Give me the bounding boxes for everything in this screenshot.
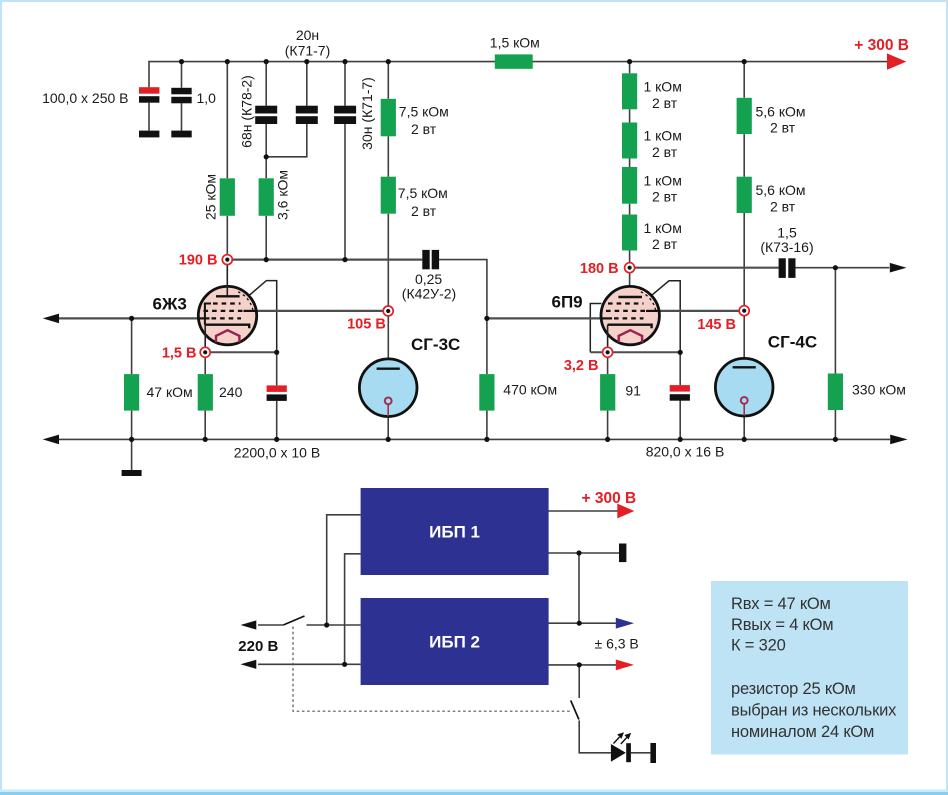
svg-text:2 вт: 2 вт bbox=[652, 189, 678, 205]
svg-text:25 кОм: 25 кОм bbox=[202, 174, 218, 220]
switch S1 lever bbox=[283, 616, 304, 625]
resistor 47 kOm bbox=[124, 374, 139, 411]
svg-text:ИБП 2: ИБП 2 bbox=[429, 632, 480, 651]
svg-text:1 кОм: 1 кОм bbox=[644, 128, 682, 144]
resistor 7.5 kOm 2W upper bbox=[381, 99, 396, 137]
wire S2 to LED bbox=[579, 720, 650, 752]
bus 6Zh3 screen to 105V node bbox=[257, 310, 384, 312]
wire IBP1 common output bbox=[549, 552, 620, 554]
arrow heater red bbox=[616, 660, 634, 671]
node 3.2V bbox=[603, 347, 613, 357]
chassis bar IBP1 bbox=[619, 544, 626, 563]
bus 6P9 cathode link bbox=[590, 351, 680, 353]
wire 820uF bypass column bbox=[679, 352, 681, 439]
svg-text:номиналом 24 кОм: номиналом 24 кОм bbox=[731, 723, 874, 741]
arrow output right bbox=[890, 263, 907, 273]
svg-text:Rвх = 47 кОм: Rвх = 47 кОм bbox=[731, 595, 831, 613]
wire 47k column and ground stub bbox=[131, 318, 133, 470]
wire capacitor C2 leads bbox=[181, 62, 183, 131]
svg-text:91: 91 bbox=[625, 383, 641, 399]
resistor 1 kOm 2W no.4 bbox=[622, 215, 637, 251]
svg-text:± 6,3 В: ± 6,3 В bbox=[595, 636, 639, 652]
resistor 5.6 kOm 2W upper bbox=[737, 98, 752, 134]
dots bottom section bbox=[324, 550, 582, 667]
svg-text:240: 240 bbox=[219, 384, 243, 400]
capacitor 20n K71-7 bbox=[296, 106, 318, 114]
capacitor 2200uF cathode bypass bbox=[267, 385, 287, 392]
wire 20n column with elbow bbox=[266, 62, 307, 157]
wire IBP2 heater outputs bbox=[549, 623, 617, 665]
capacitor 68n K78-2 bbox=[255, 106, 277, 114]
wire +300V top rail bbox=[149, 62, 888, 88]
node 190V bbox=[222, 255, 232, 265]
svg-text:+ 300 В: + 300 В bbox=[582, 490, 637, 507]
dashed gang link bbox=[293, 627, 572, 712]
wire 1k chain column bbox=[629, 62, 631, 297]
wire SG-3S leads bbox=[387, 359, 389, 440]
wire 240 cathode resistor column bbox=[204, 357, 206, 439]
block IBP2 bbox=[361, 598, 549, 685]
svg-text:100,0 x 250 В: 100,0 x 250 В bbox=[42, 90, 128, 106]
arrow +300V bottom red bbox=[617, 504, 634, 519]
svg-text:1 кОм: 1 кОм bbox=[644, 220, 682, 236]
svg-text:(К73-16): (К73-16) bbox=[760, 239, 813, 255]
resistor 1 kOm 2W no.3 bbox=[622, 167, 637, 204]
info box bbox=[711, 581, 908, 755]
arrow 220V lower bbox=[241, 660, 257, 669]
wire common to heater line bbox=[578, 553, 580, 623]
bus 180V plate line bbox=[635, 267, 779, 269]
svg-text:2 вт: 2 вт bbox=[770, 199, 796, 215]
svg-text:1,5 В: 1,5 В bbox=[162, 346, 197, 362]
svg-text:180 В: 180 В bbox=[580, 261, 619, 277]
svg-text:2 вт: 2 вт bbox=[652, 236, 678, 252]
resistor 1.5 kOm anode feed bbox=[495, 54, 533, 68]
arrow 220V upper bbox=[241, 620, 257, 629]
resistor 5.6 kOm 2W lower bbox=[737, 177, 752, 213]
resistor 91 bbox=[600, 374, 615, 411]
ground symbol bbox=[122, 470, 142, 476]
wire 68n column bbox=[265, 62, 267, 260]
svg-text:3,6 кОм: 3,6 кОм bbox=[275, 170, 291, 220]
svg-text:(К71-7): (К71-7) bbox=[285, 42, 331, 58]
wire coupling cap to grid corner bbox=[439, 260, 487, 440]
wire IBP1 +300V output bbox=[549, 510, 618, 512]
wire SG-4S leads bbox=[743, 358, 745, 439]
capacitor 820uF cathode bypass bbox=[670, 385, 690, 392]
resistor 1 kOm 2W no.1 bbox=[622, 73, 637, 109]
svg-text:1 кОм: 1 кОм bbox=[644, 79, 682, 95]
svg-text:68н (К78-2): 68н (К78-2) bbox=[239, 75, 255, 148]
LED light arrows bbox=[614, 737, 620, 744]
capacitor 1.0 bbox=[171, 88, 191, 95]
capacitor 0.25 K42U-2 coupling bbox=[422, 250, 429, 269]
svg-text:1 кОм: 1 кОм bbox=[644, 172, 682, 188]
svg-text:2 вт: 2 вт bbox=[411, 203, 437, 219]
svg-text:220 В: 220 В bbox=[238, 638, 278, 655]
svg-text:выбран из нескольких: выбран из нескольких bbox=[731, 702, 897, 720]
bus 6Zh3 cathode link bbox=[210, 351, 277, 353]
wire ground rail bbox=[57, 438, 890, 440]
capacitor 100uF electrolytic bbox=[139, 87, 159, 94]
capacitor 30n K71-7 bbox=[334, 106, 356, 114]
svg-text:2 вт: 2 вт bbox=[411, 121, 437, 137]
node 105V bbox=[383, 306, 393, 316]
tube SG-4S bbox=[715, 358, 773, 416]
frame border bbox=[0, 0, 948, 2]
switch S2 lever bbox=[571, 700, 579, 719]
wire 5.6k divider column bbox=[743, 62, 745, 359]
svg-text:+ 300 В: + 300 В bbox=[854, 37, 909, 54]
wire to switch S2 bbox=[578, 665, 580, 698]
svg-text:7,5 кОм: 7,5 кОм bbox=[398, 185, 448, 201]
svg-text:6Ж3: 6Ж3 bbox=[153, 294, 187, 313]
svg-text:1,5 кОм: 1,5 кОм bbox=[490, 34, 540, 50]
svg-text:3,2 В: 3,2 В bbox=[564, 358, 599, 374]
wire 220V upper line bbox=[258, 624, 361, 626]
resistor 25 kOm bbox=[220, 178, 235, 216]
resistor 3.6 kOm bbox=[259, 178, 274, 216]
wire 91 cathode resistor column bbox=[607, 357, 609, 439]
LED terminal bar bbox=[650, 743, 656, 763]
capacitor 1.5 K73-16 output bbox=[779, 258, 786, 278]
svg-text:1,0: 1,0 bbox=[197, 90, 217, 106]
wire 2200uF bypass column bbox=[276, 352, 278, 439]
svg-text:2200,0 x 10 В: 2200,0 x 10 В bbox=[234, 445, 320, 461]
svg-text:20н: 20н bbox=[296, 27, 319, 43]
arrow ground right bbox=[890, 435, 907, 445]
svg-text:5,6 кОм: 5,6 кОм bbox=[756, 103, 806, 119]
svg-text:190 В: 190 В bbox=[179, 253, 218, 269]
svg-text:145 В: 145 В bbox=[697, 317, 736, 333]
svg-text:5,6 кОм: 5,6 кОм bbox=[756, 182, 806, 198]
node 1.5V bbox=[200, 347, 210, 357]
arrow +300V red bbox=[887, 53, 906, 69]
node 145V bbox=[739, 306, 749, 316]
svg-text:К = 320: К = 320 bbox=[731, 637, 786, 655]
wire IBP1 left feeds bbox=[327, 515, 361, 665]
node 180V bbox=[625, 263, 635, 273]
svg-text:6П9: 6П9 bbox=[552, 293, 583, 312]
arrow input left bbox=[43, 314, 59, 324]
wire 6Zh3 shield connection bbox=[249, 281, 276, 353]
svg-text:2 вт: 2 вт bbox=[770, 120, 796, 136]
wire 6P9 shield connection bbox=[652, 281, 680, 353]
svg-text:ИБП 1: ИБП 1 bbox=[429, 522, 480, 541]
tube 6Zh3 bbox=[198, 265, 256, 348]
svg-text:2 вт: 2 вт bbox=[652, 144, 678, 160]
wire 6P9 suppressor to cathode bbox=[590, 304, 601, 353]
bus input line to 6Zh3 grid bbox=[57, 317, 199, 319]
svg-text:СГ-3С: СГ-3С bbox=[411, 335, 460, 354]
resistor 7.5 kOm 2W lower bbox=[381, 177, 396, 214]
resistor 470 kOm bbox=[479, 374, 494, 411]
svg-text:105 В: 105 В bbox=[347, 316, 386, 332]
bus 6P9 grid line bbox=[487, 317, 601, 319]
svg-text:330 кОм: 330 кОм bbox=[852, 382, 906, 398]
wire capacitor C1 lower lead bbox=[148, 103, 150, 131]
svg-text:47 кОм: 47 кОм bbox=[147, 384, 193, 400]
svg-text:820,0 x 16 В: 820,0 x 16 В bbox=[646, 443, 725, 459]
resistor 1 kOm 2W no.2 bbox=[622, 123, 637, 159]
bus 190V plate line bbox=[232, 259, 422, 261]
block IBP1 bbox=[361, 488, 549, 575]
LED HL1 bbox=[611, 744, 626, 762]
arrow heater blue bbox=[616, 618, 634, 629]
wire output after 1.5uF cap bbox=[796, 268, 890, 440]
arrow ground left bbox=[43, 435, 59, 445]
svg-text:Rвых = 4 кОм: Rвых = 4 кОм bbox=[731, 616, 833, 634]
svg-text:7,5 кОм: 7,5 кОм bbox=[399, 103, 449, 119]
svg-text:470 кОм: 470 кОм bbox=[503, 382, 557, 398]
resistor 330 kOm bbox=[828, 374, 843, 411]
bus 6P9 screen to 145V node bbox=[659, 310, 739, 312]
tube 6P9 bbox=[601, 286, 659, 347]
svg-text:СГ-4С: СГ-4С bbox=[768, 332, 817, 351]
wire 30n column bbox=[344, 62, 346, 260]
svg-text:30н (К71-7): 30н (К71-7) bbox=[359, 77, 375, 150]
tube SG-3S bbox=[359, 359, 417, 417]
svg-text:резистор 25 кОм: резистор 25 кОм bbox=[731, 680, 856, 698]
wire 25k column bbox=[226, 62, 228, 255]
wire 220V lower line bbox=[258, 663, 361, 665]
resistor 240 bbox=[198, 374, 213, 411]
svg-text:(К42У-2): (К42У-2) bbox=[402, 286, 456, 302]
wire 7.5k divider column bbox=[387, 62, 389, 359]
svg-text:2 вт: 2 вт bbox=[652, 95, 678, 111]
